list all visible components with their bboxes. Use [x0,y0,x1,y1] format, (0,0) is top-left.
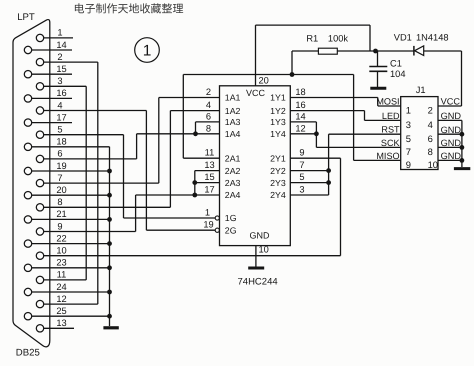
svg-text:1A3: 1A3 [225,117,241,127]
svg-text:104: 104 [390,69,406,79]
svg-text:19: 19 [56,161,66,171]
svg-text:GND: GND [441,111,462,121]
svg-text:10: 10 [259,244,269,254]
svg-text:GND: GND [441,138,462,148]
svg-text:10: 10 [428,159,438,170]
svg-text:1: 1 [205,208,210,218]
svg-text:SCK: SCK [381,138,400,148]
svg-text:8: 8 [206,123,211,133]
svg-text:1: 1 [57,28,62,38]
svg-text:1Y2: 1Y2 [270,106,286,116]
svg-text:20: 20 [259,75,269,85]
svg-text:12: 12 [295,123,305,133]
svg-text:3: 3 [406,119,411,130]
svg-text:10: 10 [56,246,66,256]
svg-text:2: 2 [57,52,62,62]
svg-text:1A1: 1A1 [225,93,241,103]
svg-text:13: 13 [204,160,214,170]
svg-text:8: 8 [57,197,62,207]
svg-text:7: 7 [406,146,411,157]
svg-text:2A3: 2A3 [225,178,241,188]
svg-text:22: 22 [56,233,66,243]
svg-text:21: 21 [56,209,66,219]
svg-text:100k: 100k [328,34,349,44]
svg-text:1N4148: 1N4148 [416,33,449,43]
svg-text:15: 15 [204,172,214,182]
svg-text:2Y2: 2Y2 [270,166,286,176]
svg-text:2: 2 [428,105,433,116]
svg-text:2Y3: 2Y3 [270,178,286,188]
svg-text:6: 6 [428,133,433,144]
svg-text:16: 16 [56,88,66,98]
svg-text:3: 3 [57,76,62,86]
svg-text:24: 24 [56,282,66,292]
svg-text:17: 17 [204,185,214,195]
svg-text:2A1: 2A1 [225,153,241,163]
svg-text:15: 15 [56,64,66,74]
svg-text:DB25: DB25 [16,347,40,358]
svg-text:4: 4 [428,119,433,130]
svg-text:LPT: LPT [17,12,35,23]
svg-text:R1: R1 [306,34,318,44]
svg-text:1: 1 [406,105,411,116]
svg-text:14: 14 [56,40,66,50]
svg-text:1A2: 1A2 [225,106,241,116]
svg-text:25: 25 [56,306,66,316]
svg-text:20: 20 [56,185,66,195]
svg-text:1A4: 1A4 [225,129,241,139]
svg-text:1: 1 [143,43,152,60]
svg-text:18: 18 [56,137,66,147]
svg-text:2G: 2G [225,225,237,235]
svg-text:1Y1: 1Y1 [270,93,286,103]
svg-text:VCC: VCC [441,97,461,107]
svg-text:5: 5 [299,172,304,182]
svg-text:3: 3 [299,185,304,195]
svg-text:2A4: 2A4 [225,190,241,200]
svg-text:4: 4 [57,100,62,110]
svg-text:13: 13 [56,318,66,328]
svg-text:GND: GND [441,151,462,161]
svg-text:17: 17 [56,112,66,122]
svg-text:C1: C1 [390,58,402,68]
svg-text:2Y4: 2Y4 [270,190,286,200]
svg-text:2: 2 [206,87,211,97]
svg-text:5: 5 [57,125,62,135]
svg-text:5: 5 [406,133,411,144]
svg-text:7: 7 [299,160,304,170]
svg-text:7: 7 [57,173,62,183]
svg-text:VD1: VD1 [394,33,412,43]
svg-text:2Y1: 2Y1 [270,153,286,163]
svg-text:8: 8 [428,146,433,157]
svg-text:J1: J1 [416,85,426,95]
svg-text:9: 9 [406,159,411,170]
svg-text:MOSI: MOSI [376,96,399,106]
svg-text:RST: RST [381,125,400,135]
svg-text:GND: GND [250,231,271,241]
svg-text:9: 9 [299,148,304,158]
svg-text:18: 18 [295,87,305,97]
svg-text:4: 4 [206,100,211,110]
svg-text:MISO: MISO [376,151,399,161]
svg-text:23: 23 [56,258,66,268]
svg-text:19: 19 [203,220,213,230]
svg-text:VCC: VCC [246,88,266,98]
svg-text:16: 16 [295,100,305,110]
svg-text:11: 11 [57,270,67,280]
svg-text:GND: GND [441,125,462,135]
svg-text:74HC244: 74HC244 [238,277,278,288]
svg-text:1Y4: 1Y4 [270,129,286,139]
svg-text:1Y3: 1Y3 [270,117,286,127]
svg-text:6: 6 [57,149,62,159]
svg-text:11: 11 [205,148,215,158]
svg-text:2A2: 2A2 [225,166,241,176]
svg-text:6: 6 [206,111,211,121]
svg-text:12: 12 [56,294,66,304]
svg-text:14: 14 [295,111,305,121]
svg-text:9: 9 [57,221,62,231]
svg-text:1G: 1G [225,213,237,223]
svg-text:LED: LED [382,111,400,121]
svg-text:电子制作天地收藏整理: 电子制作天地收藏整理 [74,3,184,16]
